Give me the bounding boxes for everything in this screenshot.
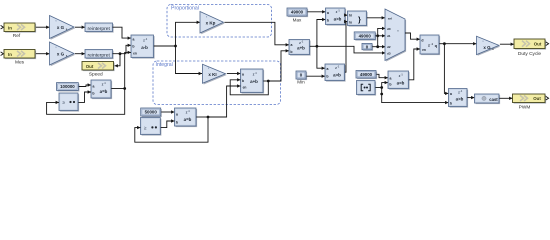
svg-text:d: d xyxy=(421,38,423,42)
wire sum to max compare b xyxy=(317,18,326,47)
wire match to register en xyxy=(409,47,420,80)
wire riser to selector d0 xyxy=(378,27,386,47)
svg-text:}: } xyxy=(358,15,361,24)
wire 0 to selector d2 xyxy=(372,45,385,48)
svg-text:*: * xyxy=(397,29,399,34)
wire accumulator feedback to b xyxy=(230,78,268,95)
svg-text:PWM: PWM xyxy=(519,105,531,111)
svg-text:en: en xyxy=(133,52,137,56)
wire Max to max compare a xyxy=(308,10,326,13)
svg-text:x G: x G xyxy=(57,25,65,30)
svg-text:Proportional: Proportional xyxy=(171,5,199,11)
block add a+b xyxy=(289,40,311,56)
wire tap to outport Speed xyxy=(115,54,121,68)
svg-text:x G: x G xyxy=(57,52,65,57)
gain KI xyxy=(203,64,227,84)
wire selector to register d xyxy=(405,33,420,41)
wire counter out junction xyxy=(375,86,383,95)
wire Min to min compare b xyxy=(307,75,326,78)
svg-text:a: a xyxy=(327,67,329,71)
wire gain to outport DutyCycle xyxy=(500,43,514,46)
wire sum to min compare a xyxy=(317,46,325,70)
svg-text:a=b: a=b xyxy=(100,89,108,94)
svg-text:lo: lo xyxy=(349,20,352,24)
svg-text:a: a xyxy=(450,92,452,96)
block cast xyxy=(475,94,501,104)
svg-text:a: a xyxy=(242,72,244,76)
svg-text:b: b xyxy=(176,120,178,124)
block timer a=b upper xyxy=(91,80,112,99)
wire cast to outport PWM xyxy=(499,97,512,100)
svg-text:b: b xyxy=(327,19,329,23)
block min compare a&gt;b xyxy=(325,64,346,82)
svg-text:x KI: x KI xyxy=(208,72,216,77)
block reinterpret1 xyxy=(85,23,114,33)
svg-text:b: b xyxy=(290,50,292,54)
svg-text:Speed: Speed xyxy=(89,72,103,78)
constant 49000 pwm period xyxy=(356,71,377,80)
wire 49000 to selector d1 xyxy=(376,34,386,37)
wire subtract out junction xyxy=(154,45,177,48)
wire timer feedback loop lower xyxy=(135,117,208,142)
svg-text:100000: 100000 xyxy=(60,84,75,89)
svg-text:a=b: a=b xyxy=(397,81,405,86)
wire register to DutyCycle gain xyxy=(444,42,476,45)
svg-text:a: a xyxy=(93,84,95,88)
wire 100000 to timer a xyxy=(79,83,91,86)
gain Gain2 xyxy=(50,42,76,66)
constant 50000 xyxy=(141,108,162,117)
register z-1 q xyxy=(420,35,440,55)
svg-text:a>b: a>b xyxy=(334,17,342,22)
svg-text:a>b: a>b xyxy=(333,73,341,78)
block subtract a-b xyxy=(131,35,155,59)
svg-text:reinterpret: reinterpret xyxy=(88,26,111,32)
svg-text:49000: 49000 xyxy=(360,72,373,77)
svg-text:d1: d1 xyxy=(387,34,391,38)
wire max compare to concat hi xyxy=(344,13,347,16)
wire concat to selector sel xyxy=(367,16,385,19)
svg-text:sel: sel xyxy=(388,16,392,20)
annotation box Integral xyxy=(153,61,281,105)
block reinterpret2 xyxy=(85,50,114,60)
wire Gain2 to reinterpret2 xyxy=(75,52,85,55)
outport Out Duty Cycle xyxy=(514,39,549,57)
wire reinterpret1 to subtract a xyxy=(113,27,132,40)
svg-text:b: b xyxy=(132,45,134,49)
wire Kp to add a xyxy=(224,22,289,46)
svg-text:Out: Out xyxy=(534,42,542,47)
svg-text:a: a xyxy=(133,37,135,41)
svg-text:Ref: Ref xyxy=(13,33,21,39)
annotation box Proportional xyxy=(167,5,272,38)
svg-text:d3: d3 xyxy=(387,52,391,56)
wire KI to accumulator a xyxy=(227,72,241,75)
wire 49000 to match a xyxy=(377,74,389,79)
outport Out Speed xyxy=(82,62,115,78)
svg-text:a+b: a+b xyxy=(250,79,258,84)
constant 49000 Max xyxy=(287,8,308,22)
svg-text:a: a xyxy=(390,76,392,80)
wire min compare to concat lo xyxy=(344,20,347,72)
inport In Ref xyxy=(1,23,37,39)
wire timer feedback loop upper xyxy=(47,89,125,115)
svg-text:d2: d2 xyxy=(387,45,391,49)
inport In Mes xyxy=(1,50,37,66)
svg-text:d0: d0 xyxy=(387,27,391,31)
wire timer to accumulator en xyxy=(208,84,241,117)
wire add out junction xyxy=(310,45,319,48)
svg-text:a: a xyxy=(327,11,329,15)
svg-text:a=b: a=b xyxy=(184,117,192,122)
wire error to KI xyxy=(176,46,203,75)
svg-text:49000: 49000 xyxy=(359,33,372,38)
svg-text:cast: cast xyxy=(489,97,498,102)
wire register out junction xyxy=(439,42,446,45)
block pwm compare a&gt;b xyxy=(449,89,469,108)
svg-text:en: en xyxy=(422,48,426,52)
counter free running xyxy=(357,81,377,96)
block match a=b xyxy=(388,71,410,90)
block accumulator a+b xyxy=(241,69,265,94)
svg-text:Integral: Integral xyxy=(156,62,173,68)
wire counter up to timer b upper xyxy=(78,90,91,102)
wire compare to cast xyxy=(467,96,474,99)
wire Gain1 to reinterpret1 xyxy=(75,26,85,29)
svg-text:Out: Out xyxy=(86,64,94,69)
svg-text:x G: x G xyxy=(483,45,491,50)
wire Ref to Gain1 xyxy=(36,26,50,29)
counter up block upper xyxy=(59,93,79,112)
svg-text:a: a xyxy=(176,112,178,116)
svg-text:hi: hi xyxy=(349,13,352,17)
gain Kp xyxy=(200,12,225,35)
svg-text:Duty Cycle: Duty Cycle xyxy=(518,51,542,57)
svg-text:In: In xyxy=(8,26,12,31)
svg-text:b: b xyxy=(92,91,94,95)
svg-text:50000: 50000 xyxy=(145,110,158,115)
svg-text:b: b xyxy=(450,102,452,106)
svg-text:a: a xyxy=(291,43,293,47)
svg-text:b: b xyxy=(242,79,244,83)
outport Out PWM xyxy=(513,94,549,111)
svg-text:In: In xyxy=(8,52,12,57)
wire reinterpret2 to subtract b xyxy=(113,44,132,56)
svg-text:reinterpret: reinterpret xyxy=(88,52,111,58)
block bit concat xyxy=(348,11,368,27)
svg-text:b: b xyxy=(326,75,328,79)
wire Mes to Gain2 xyxy=(36,52,50,55)
wire register tap to pwm compare a xyxy=(444,44,448,95)
wire timer out junction lower xyxy=(196,116,209,119)
svg-text:Min: Min xyxy=(297,79,305,84)
svg-text:Out: Out xyxy=(533,96,541,101)
wire counter up to timer b lower xyxy=(161,119,175,127)
svg-text:b: b xyxy=(389,82,391,86)
wire accumulator to add b xyxy=(268,49,289,81)
block timer a=b lower xyxy=(175,108,198,127)
gain Gain1 xyxy=(50,16,76,40)
svg-text:a+b: a+b xyxy=(297,46,305,51)
multiport switch selector xyxy=(385,9,406,62)
wire sum to selector d3 xyxy=(317,46,386,54)
wire counter to match b xyxy=(382,81,388,88)
svg-text:a>b: a>b xyxy=(456,97,464,102)
svg-text:Mes: Mes xyxy=(15,60,25,66)
svg-text:en: en xyxy=(243,85,247,89)
svg-text:Max: Max xyxy=(293,17,302,22)
svg-text:a-b: a-b xyxy=(141,45,148,50)
constant 100000 xyxy=(57,83,80,92)
counter up block lower xyxy=(141,118,162,136)
wire accumulator out junction xyxy=(263,80,269,83)
block max compare a&gt;b xyxy=(326,8,347,26)
wire timer to subtract en xyxy=(125,51,131,89)
wire 50000 to timer a lower xyxy=(161,110,174,113)
wire timer out junction upper xyxy=(111,87,126,90)
wire counter to pwm compare b xyxy=(382,88,449,105)
gain DutyCycle Gv xyxy=(477,36,501,56)
svg-text:49000: 49000 xyxy=(291,10,304,15)
wire error to Kp xyxy=(176,21,201,46)
constant 0 lower xyxy=(362,43,373,50)
constant 49000 upper limit xyxy=(354,32,376,41)
constant 0 Min xyxy=(296,71,307,84)
svg-text:x Kp: x Kp xyxy=(206,20,216,25)
